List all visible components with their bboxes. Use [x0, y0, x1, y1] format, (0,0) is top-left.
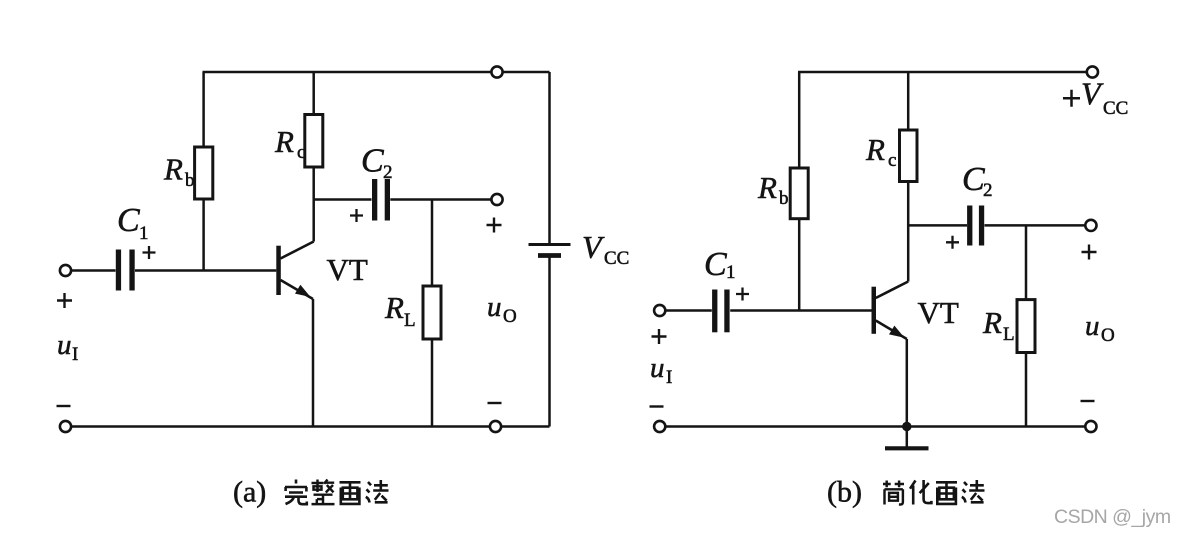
polarity + at C2 (a) [350, 209, 363, 222]
svg-text:C: C [962, 161, 985, 198]
wire: Rc lower lead / collector wire (a) [312, 167, 315, 242]
resistor Rb (a) [195, 147, 213, 199]
transistor VT (b) emitter arrow [889, 326, 905, 338]
capacitor C1 plates (b) [712, 290, 730, 333]
wire: Rb lower lead (b) [798, 219, 801, 311]
resistor RL (b) [1017, 300, 1035, 353]
svg-text:R: R [274, 124, 294, 159]
svg-text:R: R [163, 152, 183, 187]
transistor VT (a) base bar [276, 246, 281, 295]
terminal: bottom left (a) [60, 421, 71, 432]
svg-text:(b): (b) [827, 476, 862, 509]
polarity - output (b) [1081, 400, 1095, 402]
polarity + at C1 (a) [143, 246, 156, 259]
capacitor C2 plates (a) [372, 179, 390, 221]
caption (b) char fa [962, 480, 985, 503]
wire: emitter wire down (a) [312, 299, 315, 427]
svg-text:R: R [757, 170, 777, 205]
svg-text:CSDN @_jym: CSDN @_jym [1054, 506, 1171, 528]
svg-text:I: I [666, 367, 672, 388]
svg-text:CC: CC [604, 248, 629, 269]
wire: Rb upper lead (a) [202, 72, 205, 147]
caption (a) char zheng [312, 480, 335, 505]
transistor VT (a) emitter stroke [281, 280, 314, 299]
battery VCC short plate (a) [538, 253, 561, 258]
svg-text:O: O [503, 306, 517, 327]
svg-text:u: u [1085, 310, 1100, 342]
polarity - output (a) [488, 402, 502, 404]
capacitor C2 plates (b) [967, 206, 984, 246]
svg-text:R: R [982, 305, 1002, 340]
junction dot: emitter to ground rail (b) [902, 422, 911, 431]
caption (a) char hua1 [340, 482, 361, 504]
polarity + at C2 (b) [946, 236, 959, 249]
wire: RL lower lead (b) [1025, 353, 1028, 427]
wire: input lead (a) [71, 269, 116, 272]
transistor VT (a) emitter arrow [295, 285, 311, 297]
terminal: input (b) [654, 305, 665, 316]
svg-text:C: C [361, 143, 384, 180]
wire: Rb upper lead (b) [798, 72, 801, 168]
wire: collector node to C2 (b) [908, 224, 967, 227]
svg-text:O: O [1101, 325, 1115, 346]
wire: base wire C1 to VT base (b) [730, 309, 871, 312]
wire: top supply rail (a) [203, 71, 550, 74]
transistor VT (b) collector stroke [876, 282, 909, 299]
wire: base wire C1 to VT base (a) [135, 269, 276, 272]
wire: input lead (b) [666, 309, 712, 312]
terminal: bottom right (a) [490, 421, 501, 432]
svg-text:1: 1 [139, 223, 149, 244]
svg-text:u: u [650, 352, 665, 384]
svg-text:u: u [57, 329, 72, 361]
caption (b) char hua2 [910, 480, 931, 505]
wire: battery top lead (a) [548, 72, 551, 245]
svg-text:2: 2 [983, 180, 993, 201]
terminal: top supply (a) [491, 66, 502, 77]
svg-text:L: L [404, 310, 416, 331]
svg-text:1: 1 [726, 262, 736, 283]
svg-text:CC: CC [1103, 98, 1128, 119]
polarity + at C1 (b) [736, 288, 749, 301]
resistor Rc (a) [305, 115, 323, 168]
transistor VT (b) emitter stroke [876, 321, 907, 340]
polarity + input (b) [652, 329, 667, 344]
terminal: input (a) [60, 265, 71, 276]
svg-text:L: L [1003, 324, 1015, 345]
wire: Rb lower lead (a) [202, 199, 205, 271]
caption (b) char jian [883, 481, 904, 505]
wire: Rc lower lead / collector wire (b) [907, 182, 910, 282]
polarity + output (a) [487, 218, 502, 233]
polarity - input (a) [57, 405, 71, 407]
caption (a) char fa [366, 480, 389, 503]
polarity + output (b) [1082, 245, 1097, 260]
resistor Rc (b) [900, 130, 918, 182]
resistor RL (a) [423, 286, 441, 339]
svg-text:VT: VT [918, 295, 959, 330]
svg-text:2: 2 [383, 162, 393, 183]
transistor VT (b) base bar [872, 287, 877, 334]
wire: RL lower lead (a) [431, 339, 434, 427]
label +VCC (b) [1063, 90, 1080, 107]
battery VCC long plate (a) [529, 243, 571, 246]
svg-text:(a): (a) [233, 476, 266, 509]
svg-text:u: u [487, 291, 502, 323]
terminal: bottom left (b) [654, 421, 665, 432]
ground bar (b) [885, 446, 929, 450]
svg-text:b: b [779, 188, 789, 209]
wire: bottom rail (a) [66, 425, 550, 428]
wire: top supply rail (b) [798, 71, 1087, 74]
svg-text:R: R [865, 132, 885, 167]
wire: C2 to output terminal (b) [985, 224, 1086, 227]
polarity + input (a) [57, 293, 72, 308]
svg-text:C: C [704, 246, 727, 283]
svg-text:VT: VT [327, 252, 368, 287]
terminal: +VCC supply (b) [1087, 66, 1098, 77]
terminal: output (b) [1085, 220, 1096, 231]
ground stub (b) [906, 427, 909, 449]
polarity - input (b) [650, 405, 664, 407]
svg-text:I: I [72, 344, 78, 365]
svg-text:c: c [297, 142, 305, 163]
wire: bottom rail (b) [660, 425, 1091, 428]
wire: collector node to C2 (a) [314, 198, 372, 201]
svg-text:b: b [185, 170, 195, 191]
wire: emitter wire down (b) [906, 339, 909, 427]
wire: Rc upper lead (b) [907, 72, 910, 130]
wire: Rc upper lead (a) [312, 72, 315, 115]
svg-text:c: c [888, 150, 896, 171]
resistor Rb (b) [790, 168, 808, 219]
wire: C2 to output terminal (a) [390, 198, 491, 201]
wire: RL upper lead (b) [1025, 225, 1028, 299]
caption (b) char hua1 [936, 482, 957, 504]
svg-text:C: C [117, 202, 140, 239]
terminal: bottom right (b) [1085, 421, 1096, 432]
wire: RL upper lead (a) [431, 200, 434, 287]
caption (a) char wan [285, 480, 307, 505]
capacitor C1 plates (a) [116, 250, 135, 291]
terminal: output (a) [491, 194, 502, 205]
transistor VT (a) collector stroke [281, 242, 314, 259]
wire: battery bottom lead (a) [548, 257, 551, 427]
svg-text:R: R [384, 290, 404, 325]
